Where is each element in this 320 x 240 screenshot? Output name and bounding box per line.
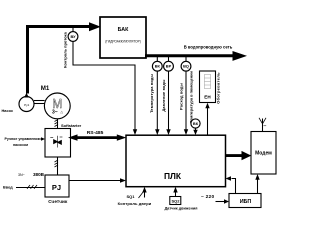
svg-text:Контроль двери: Контроль двери — [118, 201, 152, 206]
pipe to water network — [145, 54, 234, 57]
softstarter box — [45, 129, 71, 158]
RS-485 link arrow — [68, 134, 126, 140]
wire BP to PLC — [168, 71, 170, 130]
svg-text:Расход воды: Расход воды — [178, 83, 183, 110]
sensor BQ stub — [185, 57, 187, 62]
sensor BK1 stub — [156, 57, 158, 62]
svg-text:Модем: Модем — [255, 150, 272, 156]
svg-text:насосом: насосом — [13, 143, 28, 147]
arrow into PLC from UPS — [226, 176, 232, 180]
svg-text:SQ2: SQ2 — [171, 199, 180, 204]
arrow into heater — [205, 103, 209, 109]
svg-text:ЕН: ЕН — [204, 95, 211, 100]
arrow into PLC from BK2 — [193, 130, 197, 135]
svg-text:ВК: ВК — [193, 121, 199, 126]
label manual pump control — [5, 137, 40, 147]
wire 220V to UPS — [216, 201, 225, 203]
motor M1 circle — [44, 93, 70, 119]
sensor BK2 room temperature circle — [191, 119, 200, 128]
svg-text:БАК: БАК — [118, 27, 129, 33]
arrow into tank — [89, 22, 101, 31]
svg-text:Ручное управление: Ручное управление — [5, 137, 40, 141]
svg-text:ВQ: ВQ — [183, 64, 189, 69]
svg-text:~ 220: ~ 220 — [201, 194, 214, 200]
wire 380V input — [16, 187, 45, 189]
wire BV to PLC — [73, 41, 135, 130]
shaft coupling — [34, 101, 45, 104]
svg-text:ВР: ВР — [166, 64, 172, 69]
switch SQ1 wire — [144, 191, 146, 198]
wire pipe from pump to tank — [28, 27, 92, 94]
arrow manual control to softstarter — [39, 137, 46, 141]
wire UPS to modem — [257, 179, 259, 194]
svg-text:Ввод: Ввод — [3, 185, 13, 189]
svg-text:Контроль протока: Контроль протока — [63, 31, 68, 68]
svg-text:PJ: PJ — [52, 183, 61, 192]
motion sensor SQ2 box — [170, 197, 181, 205]
svg-text:Обогреватель: Обогреватель — [216, 72, 221, 104]
arrow into PLC top from BV — [133, 129, 137, 135]
svg-text:Счетчик: Счетчик — [48, 199, 68, 204]
svg-text:В водопроводную сеть: В водопроводную сеть — [184, 44, 233, 49]
svg-text:Ру1: Ру1 — [24, 103, 30, 107]
svg-text:3~: 3~ — [52, 109, 58, 115]
modem box — [251, 132, 276, 175]
arrow into PLC from BP — [166, 129, 170, 135]
svg-text:RS-485: RS-485 — [87, 130, 104, 136]
heater EH block — [200, 71, 216, 103]
meter PJ box — [45, 175, 69, 197]
svg-text:ИБП: ИБП — [240, 199, 252, 205]
arrow to network — [233, 51, 248, 61]
sensor BQ water flow circle — [181, 61, 191, 71]
UPS box — [229, 194, 261, 208]
wire PLC to heater — [207, 108, 209, 136]
tank BAK — [100, 17, 146, 58]
three-phase marks input — [27, 185, 37, 189]
svg-text:Датчик движения: Датчик движения — [165, 207, 198, 211]
sensor BP stub — [168, 57, 170, 62]
arrow into PLC from PJ — [120, 178, 126, 182]
flow sensor BV stub — [72, 28, 74, 32]
antenna — [259, 118, 266, 132]
svg-text:380В: 380В — [33, 172, 45, 177]
svg-text:М1: М1 — [41, 85, 50, 92]
arrow into UPS — [224, 199, 229, 203]
arrow into PLC from BK1 — [155, 129, 159, 135]
svg-text:Давление воды: Давление воды — [161, 79, 166, 112]
wire BK1 to PLC — [156, 71, 158, 130]
sensor BP water pressure circle — [164, 61, 174, 71]
svg-text:SQ1: SQ1 — [127, 194, 136, 199]
svg-text:Температура воды: Температура воды — [149, 74, 154, 113]
arrow into PLC from BQ — [184, 129, 188, 135]
arrow into PLC from SQ1 — [142, 187, 146, 193]
sensor BK1 water temperature circle — [152, 61, 162, 71]
wire SQ2 to PLC — [175, 191, 177, 197]
wire BK2 to PLC — [195, 128, 197, 131]
svg-text:Температура в помещении: Температура в помещении — [189, 71, 194, 123]
arrow into modem from UPS — [255, 174, 259, 180]
wire PJ to softstarter — [57, 157, 59, 175]
arrow into PLC from SQ2 — [173, 187, 177, 193]
PLC to modem thick arrow — [226, 151, 252, 160]
svg-text:Softstarter: Softstarter — [61, 123, 82, 128]
three-phase input label — [18, 172, 45, 177]
svg-text:Насос: Насос — [2, 108, 14, 113]
switch SQ1 blade — [139, 192, 144, 199]
flow sensor BV circle — [68, 32, 78, 42]
wire PJ to PLC — [69, 180, 121, 182]
wire BQ to PLC — [185, 71, 187, 130]
PLC block — [126, 135, 226, 187]
wire UPS to PLC — [232, 179, 236, 194]
svg-text:(ГИДРОАККУМУЛЯТОР): (ГИДРОАККУМУЛЯТОР) — [105, 40, 141, 44]
three-phase marks PJ cable — [55, 160, 59, 167]
svg-text:ПЛК: ПЛК — [164, 171, 182, 181]
svg-text:ВК: ВК — [155, 64, 161, 69]
svg-text:ВУ: ВУ — [70, 34, 76, 39]
pump circle — [19, 93, 34, 112]
svg-text:3N~: 3N~ — [18, 173, 25, 177]
three-phase marks motor cable — [55, 120, 59, 127]
wire motor to softstarter — [57, 119, 59, 129]
